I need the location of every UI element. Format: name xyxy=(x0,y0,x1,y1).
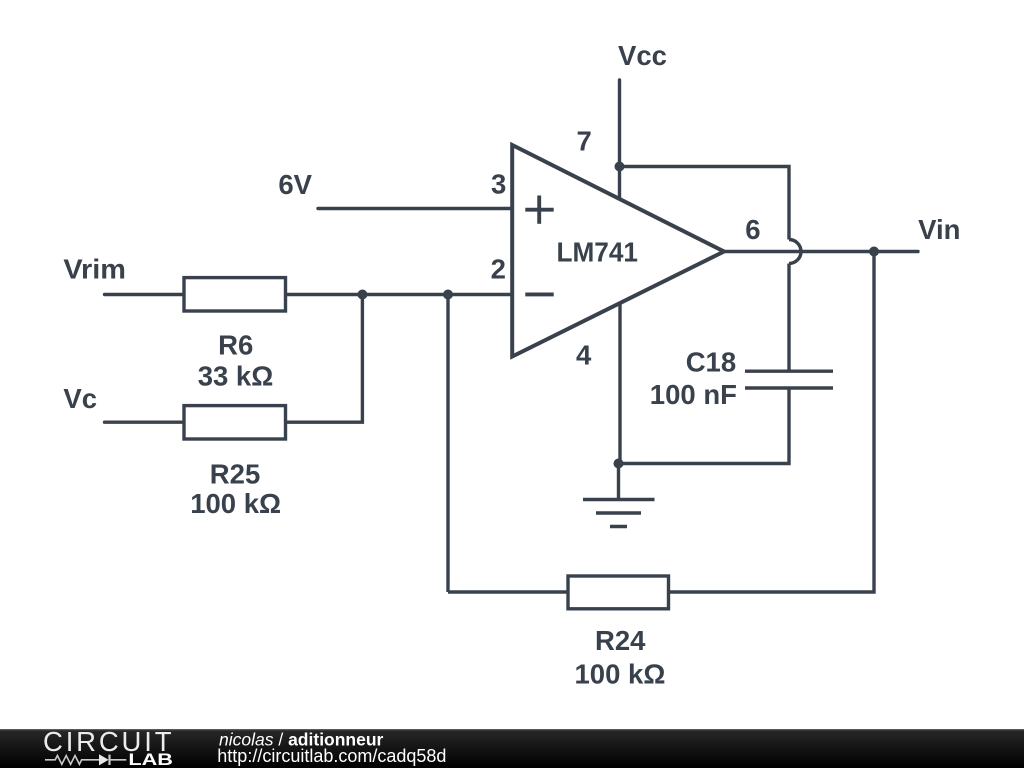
svg-text:R24: R24 xyxy=(595,625,646,656)
svg-text:100 kΩ: 100 kΩ xyxy=(190,488,281,519)
svg-text:Vin: Vin xyxy=(918,214,960,245)
svg-text:4: 4 xyxy=(576,340,592,371)
svg-text:3: 3 xyxy=(491,169,506,200)
svg-text:LM741: LM741 xyxy=(557,237,639,268)
svg-text:R6: R6 xyxy=(218,329,253,360)
svg-text:http://circuitlab.com/cadq58d: http://circuitlab.com/cadq58d xyxy=(217,746,446,766)
svg-text:6: 6 xyxy=(745,214,760,245)
svg-text:7: 7 xyxy=(577,126,592,157)
svg-text:Vrim: Vrim xyxy=(63,254,126,285)
svg-text:Vc: Vc xyxy=(63,383,97,414)
svg-text:R25: R25 xyxy=(210,458,260,489)
svg-text:C18: C18 xyxy=(686,346,736,377)
svg-text:100 kΩ: 100 kΩ xyxy=(575,659,666,690)
svg-text:2: 2 xyxy=(491,254,506,285)
svg-text:33 kΩ: 33 kΩ xyxy=(198,360,274,391)
svg-text:100 nF: 100 nF xyxy=(650,379,737,410)
svg-text:LAB: LAB xyxy=(128,750,173,768)
svg-text:Vcc: Vcc xyxy=(618,40,667,71)
svg-text:6V: 6V xyxy=(278,169,312,200)
